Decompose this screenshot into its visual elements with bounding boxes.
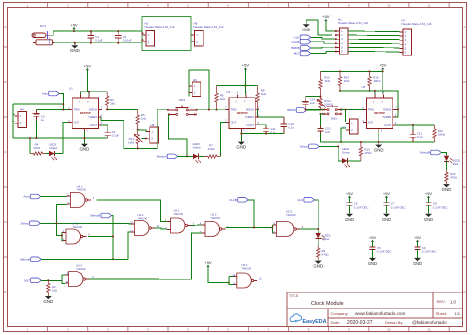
power flag +5V (U1) bbox=[86, 69, 89, 71]
svg-text:+5V: +5V bbox=[383, 191, 391, 196]
LED LED5 Red bbox=[444, 156, 461, 166]
ground GND (R1) bbox=[47, 295, 49, 298]
wire SW2 left bottom bbox=[321, 113, 324, 115]
svg-text:NE555P: NE555P bbox=[374, 111, 385, 115]
resistor R10 bbox=[433, 125, 446, 142]
svg-text:Yellow: Yellow bbox=[49, 146, 58, 150]
wire LED1 to R9 bbox=[317, 239, 319, 246]
svg-text:U4.2: U4.2 bbox=[73, 222, 79, 226]
wire U4.3 out to U5.2 pin5 bbox=[89, 278, 191, 280]
timer U1 NE555P bbox=[68, 93, 103, 133]
wire Select to LED4 bbox=[319, 146, 338, 160]
svg-text:1MΩ: 1MΩ bbox=[128, 140, 135, 144]
svg-text:Auto: Auto bbox=[42, 92, 49, 96]
capacitor C9 0.1UF DEC bbox=[414, 242, 436, 258]
svg-text:Date:: Date: bbox=[331, 320, 341, 325]
wire DC+ to rail bbox=[51, 31, 54, 35]
header H8 bbox=[191, 21, 224, 46]
resistor R9 bbox=[317, 246, 330, 260]
svg-text:GND: GND bbox=[345, 217, 354, 222]
power flag +5V (input) bbox=[73, 28, 76, 30]
svg-text:1kΩ: 1kΩ bbox=[261, 92, 267, 96]
junction R4 top bbox=[29, 137, 31, 139]
junction R14 rail bbox=[339, 70, 341, 72]
gate U5.2 74HC00 bbox=[200, 213, 230, 237]
wire Auto to TRIG bbox=[59, 94, 63, 111]
svg-text:MLT: MLT bbox=[24, 279, 30, 283]
wire C13 to GND rail bbox=[320, 133, 322, 142]
EasyEDA logo bbox=[290, 314, 327, 325]
svg-text:NE555P: NE555P bbox=[237, 111, 248, 115]
wire U3 pin4 to node bbox=[374, 91, 376, 95]
svg-text:www.fabianofurtado.com: www.fabianofurtado.com bbox=[355, 311, 405, 316]
junction THRES bbox=[257, 116, 259, 118]
ground GND (C8) bbox=[425, 214, 432, 217]
svg-text:Blue: Blue bbox=[324, 237, 330, 241]
junction R2 bottom bbox=[106, 108, 108, 110]
wire H4 box left bbox=[12, 104, 14, 138]
junction +5V U2 bbox=[244, 85, 246, 87]
capacitor C8 0.1UF DEC bbox=[425, 198, 447, 214]
wire DISCH stub R8 bbox=[258, 108, 259, 110]
header H6 bbox=[189, 78, 201, 97]
wire SelectB down to Manual row bbox=[112, 216, 114, 260]
resistor R4 bbox=[30, 142, 46, 155]
svg-text:Clock Module: Clock Module bbox=[311, 301, 344, 307]
ground GND (header area) bbox=[305, 20, 307, 24]
wire THRES loop to RV1 bottom and SW1 bbox=[101, 110, 157, 149]
wire Manual flag stub bbox=[178, 155, 187, 157]
svg-text:BRKB: BRKB bbox=[291, 46, 299, 50]
svg-text:COUT: COUT bbox=[384, 123, 392, 127]
svg-text:B: B bbox=[4, 80, 6, 84]
svg-text:+5V: +5V bbox=[379, 63, 387, 68]
wires H1 to H7 bbox=[348, 31, 399, 52]
wire U5.3 input bridge bbox=[272, 225, 276, 233]
svg-text:1/1: 1/1 bbox=[455, 311, 461, 316]
svg-text:+5V: +5V bbox=[322, 14, 330, 19]
junction SW1 right bbox=[196, 109, 198, 111]
svg-text:Header-Male-2.54_1x6: Header-Male-2.54_1x6 bbox=[402, 22, 432, 26]
junction Manual/LED3 bbox=[186, 155, 188, 157]
wire +5V to H1 pin1 bbox=[326, 21, 336, 30]
wire +5V to U3 VCC bbox=[382, 70, 384, 95]
wire MLT to U4.3 bbox=[41, 279, 62, 281]
junction +5V rail U3 bbox=[382, 70, 384, 72]
ground GND (U1) bbox=[83, 143, 85, 145]
gate U5.1 74HC00 bbox=[165, 209, 195, 233]
wire +5V to U2 VCC bbox=[244, 70, 246, 94]
wire CLK drop bbox=[314, 200, 318, 233]
junction U1 gnd rail bbox=[83, 137, 85, 139]
svg-text:THRES: THRES bbox=[245, 115, 254, 119]
wires flags to H1 bbox=[311, 37, 336, 53]
svg-text:74HC00: 74HC00 bbox=[286, 213, 296, 217]
wire SW1 right to TRIG bbox=[197, 109, 226, 111]
header H1 bbox=[336, 18, 369, 55]
svg-text:MLT: MLT bbox=[294, 52, 300, 56]
junction H6 drop bbox=[208, 109, 210, 111]
svg-text:2020-03-27: 2020-03-27 bbox=[347, 320, 373, 326]
capacitor C10 bbox=[281, 117, 295, 134]
svg-text:GND: GND bbox=[424, 217, 433, 222]
wire GND to H1 pin2 bbox=[306, 20, 332, 35]
wire Select to U4.4 pin12 bbox=[40, 222, 131, 225]
svg-text:E: E bbox=[4, 290, 6, 294]
junction R5/RV1 bbox=[137, 129, 139, 131]
wire VCC rail U3 bbox=[321, 70, 383, 72]
junction C2 top bbox=[117, 30, 119, 32]
header H4 bbox=[14, 107, 26, 127]
junction RV11 bottom bbox=[320, 109, 322, 111]
capacitor C7 0.1UF DEC bbox=[383, 198, 405, 214]
wire DISCH to R5 bbox=[106, 108, 138, 110]
junction U3 gnd bbox=[378, 141, 380, 143]
svg-text:COUT: COUT bbox=[247, 123, 255, 127]
capacitor C14 bbox=[301, 97, 315, 110]
wire U4.2 output bbox=[88, 236, 113, 238]
svg-text:U1: U1 bbox=[69, 87, 73, 91]
junction SelectB/Manual bbox=[112, 258, 114, 260]
svg-text:H5: H5 bbox=[151, 123, 155, 127]
junction CLK/LED1 bbox=[317, 228, 319, 230]
wire U4.4 pin13 from Manual row bbox=[128, 232, 131, 259]
svg-text:GND: GND bbox=[302, 28, 310, 32]
wire C13 column bbox=[320, 114, 322, 126]
svg-text:1.0: 1.0 bbox=[450, 299, 456, 304]
svg-text:Yellow: Yellow bbox=[193, 145, 202, 149]
wire U5.2 out to U5.3 bbox=[225, 227, 272, 229]
svg-text:+5V: +5V bbox=[84, 63, 92, 68]
svg-text:GND: GND bbox=[80, 147, 90, 152]
svg-text:1uF: 1uF bbox=[310, 101, 315, 105]
power flag +5V (U5.4) bbox=[207, 265, 210, 267]
svg-text:74HC00: 74HC00 bbox=[242, 266, 252, 270]
gate U4.2 74HC00 bbox=[63, 222, 91, 244]
power flag +5V (C8) bbox=[427, 196, 430, 198]
svg-text:OUT: OUT bbox=[74, 121, 80, 125]
wire U4.4 out to U5.2... U5.1 pin2 bbox=[155, 228, 167, 229]
junction CLKB bbox=[253, 227, 255, 229]
svg-text:GND: GND bbox=[442, 187, 452, 192]
svg-text:U2: U2 bbox=[227, 90, 231, 94]
svg-text:74HC00: 74HC00 bbox=[76, 267, 86, 271]
svg-text:SelectB: SelectB bbox=[90, 214, 100, 218]
junction R16 bottom bbox=[369, 90, 371, 92]
wire H4 box top bbox=[13, 103, 63, 105]
resistor R16 bbox=[368, 71, 382, 91]
wire U5.4 input bridge bbox=[229, 277, 234, 285]
wire H3 pin2 drop bbox=[341, 128, 346, 142]
wire Manual row bbox=[41, 258, 128, 260]
wire top +5V rail bbox=[53, 30, 142, 32]
header H5 bbox=[146, 123, 158, 143]
wire OUT U2 to R7 bbox=[220, 122, 225, 156]
svg-text:0.1u: 0.1u bbox=[288, 125, 294, 129]
wire Auto to U4.1 pin1 bbox=[41, 196, 67, 198]
svg-text:GND: GND bbox=[236, 145, 246, 150]
svg-text:0.1UF DEC: 0.1UF DEC bbox=[377, 250, 392, 254]
wire R8 column to THRES bbox=[257, 109, 259, 117]
svg-text:U3: U3 bbox=[362, 85, 366, 89]
capacitor C13 bbox=[317, 126, 330, 134]
svg-text:BRKB: BRKB bbox=[287, 108, 295, 112]
wire +5V to U1 VCC bbox=[87, 71, 89, 92]
svg-text:GND: GND bbox=[43, 299, 53, 304]
svg-text:0.1UF DEC: 0.1UF DEC bbox=[422, 250, 437, 254]
svg-text:Select: Select bbox=[300, 145, 309, 149]
resistor R14 bbox=[338, 71, 350, 91]
wire U5.3 out to CLK/LED1 bbox=[300, 228, 318, 230]
svg-text:Manual: Manual bbox=[157, 155, 167, 159]
resistor R13 bbox=[359, 142, 372, 161]
wire H4 pins to box bbox=[13, 114, 14, 116]
svg-text:COUT: COUT bbox=[90, 123, 98, 127]
svg-text:SelectB: SelectB bbox=[420, 151, 430, 155]
junction box top bbox=[62, 103, 64, 105]
junction TRIG bbox=[62, 109, 64, 111]
wire C3 to TRIG bbox=[36, 109, 63, 111]
svg-text:0.1UF DEC: 0.1UF DEC bbox=[391, 205, 406, 209]
svg-text:@fabianofurtado: @fabianofurtado bbox=[412, 320, 447, 325]
wire CLKB drop bbox=[248, 200, 254, 228]
svg-text:DC1: DC1 bbox=[40, 24, 46, 28]
wire BRKB to RV11 column bbox=[307, 109, 321, 111]
svg-text:H4: H4 bbox=[20, 107, 24, 111]
svg-text:U5.3: U5.3 bbox=[286, 210, 292, 214]
svg-text:Green: Green bbox=[342, 150, 350, 154]
junction H2 pin2 bbox=[141, 39, 143, 41]
LED LED4 Green bbox=[338, 147, 361, 168]
svg-text:GND: GND bbox=[313, 264, 323, 269]
wire THRES to C10 bbox=[258, 116, 284, 118]
svg-text:+5V: +5V bbox=[242, 63, 250, 68]
svg-text:0.1u: 0.1u bbox=[417, 135, 423, 139]
wire U5.2 pin5 from U4.3 bbox=[191, 233, 201, 279]
timer U3 NE555P bbox=[363, 93, 398, 133]
wire RV1 wiper to H5 pin2 bbox=[142, 138, 147, 140]
wire U4.3 input bridge bbox=[62, 275, 65, 284]
wire SW1 bottom to Manual node bbox=[169, 114, 188, 156]
wire C14 bottom node bbox=[306, 109, 321, 111]
svg-text:74HC00: 74HC00 bbox=[174, 212, 184, 216]
svg-text:470Ω: 470Ω bbox=[208, 147, 216, 151]
title block bbox=[287, 292, 463, 326]
header H7 bbox=[399, 19, 432, 56]
svg-text:Red: Red bbox=[453, 162, 459, 166]
switch SW2 bbox=[322, 105, 342, 121]
resistor R15 bbox=[445, 170, 458, 185]
junction C11 bottom bbox=[265, 133, 267, 135]
svg-text:H3: H3 bbox=[342, 125, 346, 129]
svg-text:A: A bbox=[4, 25, 6, 29]
svg-text:11: 11 bbox=[427, 3, 430, 7]
capacitor C3 bbox=[32, 110, 45, 123]
ground GND (R15) bbox=[446, 183, 448, 185]
header H2 bbox=[142, 21, 175, 46]
svg-text:OUT: OUT bbox=[231, 120, 237, 124]
svg-text:REV:: REV: bbox=[437, 299, 446, 304]
junction C14 bottom bbox=[305, 109, 307, 111]
svg-text:CLK: CLK bbox=[297, 198, 303, 202]
junction C3 bottom bbox=[35, 137, 37, 139]
svg-text:10KΩ: 10KΩ bbox=[373, 79, 381, 83]
junction Select bbox=[56, 222, 58, 224]
svg-text:U4.3: U4.3 bbox=[76, 264, 82, 268]
wire DISCH U3 bbox=[396, 108, 398, 110]
svg-text:U5.4: U5.4 bbox=[242, 263, 248, 267]
junction SW2 right bbox=[345, 109, 347, 111]
wire loop H6 bbox=[189, 70, 209, 110]
svg-text:Select: Select bbox=[21, 222, 30, 226]
svg-text:0.01uF: 0.01uF bbox=[123, 39, 132, 43]
svg-text:+5V: +5V bbox=[70, 22, 78, 27]
svg-text:TRIG: TRIG bbox=[231, 108, 237, 112]
junction Select/LED4 bbox=[337, 145, 339, 147]
wire U4.1 pin2 to Select node bbox=[57, 205, 68, 236]
svg-text:GND: GND bbox=[382, 217, 391, 222]
svg-text:74HC00: 74HC00 bbox=[138, 217, 148, 221]
svg-text:GND: GND bbox=[70, 48, 80, 53]
svg-text:GND: GND bbox=[413, 261, 422, 266]
wire GND rail U1 bottom bbox=[13, 137, 108, 139]
gate U5.4 74HC00 bbox=[232, 263, 262, 288]
junction wiper bbox=[145, 138, 147, 140]
wire H6 pins bbox=[188, 84, 190, 86]
wire VCC rail U1 bbox=[81, 91, 108, 93]
svg-text:0.1uF: 0.1uF bbox=[95, 39, 103, 43]
svg-text:SW1: SW1 bbox=[179, 98, 186, 102]
svg-text:U4.1: U4.1 bbox=[77, 184, 83, 188]
svg-text:CLKB: CLKB bbox=[292, 40, 300, 44]
svg-text:Auto: Auto bbox=[23, 195, 30, 199]
resistor R2 bbox=[106, 92, 117, 110]
svg-text:470Ω: 470Ω bbox=[322, 253, 330, 257]
gate U4.1 74HC00 bbox=[67, 184, 95, 207]
svg-text:OUT: OUT bbox=[368, 121, 374, 125]
svg-text:Company:: Company: bbox=[331, 311, 349, 316]
power flag +5V (C9) bbox=[416, 240, 419, 242]
junction C12 top bbox=[412, 124, 414, 126]
gate U5.3 74HC00 bbox=[272, 210, 304, 237]
potentiometer RV11 bbox=[317, 97, 334, 110]
svg-text:TRIG: TRIG bbox=[74, 108, 80, 112]
power flag +5V (header area) bbox=[325, 20, 328, 22]
junction RV11 top bbox=[320, 96, 322, 98]
svg-text:1kΩ: 1kΩ bbox=[141, 117, 147, 121]
svg-text:TITLE:: TITLE: bbox=[289, 294, 299, 298]
wire VCC rail U2 bbox=[217, 85, 258, 87]
wire GND rail U3 bbox=[321, 141, 435, 143]
gate U4.3 74HC00 bbox=[65, 264, 94, 287]
junction H3 gnd bbox=[340, 141, 342, 143]
svg-text:H6: H6 bbox=[193, 78, 197, 82]
junction R16 rail bbox=[369, 70, 371, 72]
svg-text:CLK: CLK bbox=[294, 36, 300, 40]
wire OUT down to LED2 bbox=[63, 123, 69, 154]
wire GND rail U2 bbox=[241, 133, 284, 135]
wire SelectB to LED5 bbox=[441, 153, 446, 156]
junction U1 pin8 bbox=[88, 91, 90, 93]
ground GND (U2) bbox=[240, 141, 242, 143]
capacitor C11 bbox=[263, 126, 277, 134]
svg-text:11: 11 bbox=[427, 327, 430, 331]
wire SW2 right to TRIG U3 bbox=[341, 109, 363, 111]
wire COUT to C4 bbox=[102, 125, 108, 130]
ground GND (C5) bbox=[369, 258, 376, 261]
svg-text:10: 10 bbox=[387, 3, 391, 7]
junctions H1 pins bbox=[335, 30, 337, 52]
resistor R6 bbox=[215, 86, 226, 110]
svg-text:GND: GND bbox=[368, 261, 377, 266]
wire C14 top to RV11 bbox=[306, 96, 321, 98]
junction H2 pin1 bbox=[141, 32, 143, 34]
wire U1 GND pin bbox=[83, 132, 85, 144]
svg-text:1kΩ: 1kΩ bbox=[52, 288, 58, 292]
resistor R1 bbox=[47, 280, 58, 295]
wire C3 to rail bbox=[35, 121, 37, 139]
resistor R5 bbox=[136, 109, 147, 129]
svg-text:THRES: THRES bbox=[383, 115, 392, 119]
svg-text:Drawn By:: Drawn By: bbox=[385, 320, 403, 325]
svg-text:1kΩ: 1kΩ bbox=[110, 102, 116, 106]
wire U4.2 input bridge bbox=[61, 233, 64, 242]
wire drop to H3 pin1 bbox=[345, 110, 347, 122]
svg-text:U5.2: U5.2 bbox=[211, 213, 217, 217]
wire +5V to U5.4 inputs bbox=[208, 267, 229, 283]
wire LED5 to R15 bbox=[446, 161, 448, 169]
svg-text:U5.1: U5.1 bbox=[174, 209, 180, 213]
power flag +5V (C7) bbox=[385, 196, 388, 198]
junction C1 top bbox=[90, 30, 92, 32]
svg-text:Manual: Manual bbox=[20, 258, 30, 262]
svg-text:1uF: 1uF bbox=[325, 130, 330, 134]
svg-text:B: B bbox=[463, 80, 465, 84]
switch SW1 bbox=[168, 98, 197, 115]
wire SW1 left bbox=[157, 109, 168, 111]
svg-text:GND: GND bbox=[374, 148, 384, 153]
wire U4.1 out long to U5.1 pin1 bbox=[96, 200, 167, 222]
svg-text:CLKB: CLKB bbox=[229, 198, 237, 202]
wire U3 GND pin bbox=[378, 132, 380, 145]
ground GND (input) bbox=[74, 43, 76, 46]
resistor R12 bbox=[319, 71, 331, 96]
resistor R7 bbox=[204, 144, 220, 159]
junction RV1 bottom bbox=[137, 147, 139, 149]
wire C12 node to R10 bbox=[413, 124, 435, 126]
junction U5.4 feed bbox=[228, 282, 230, 284]
svg-text:470Ω: 470Ω bbox=[364, 151, 372, 155]
wire R4 drop bbox=[29, 138, 31, 153]
svg-text:Header-Male-2.54_1x6: Header-Male-2.54_1x6 bbox=[338, 21, 368, 25]
wire TRIG node bbox=[63, 109, 68, 111]
svg-text:+5V: +5V bbox=[204, 260, 212, 265]
svg-text:SW2: SW2 bbox=[331, 117, 338, 121]
junction SW1 left bbox=[167, 109, 169, 111]
svg-text:Sheet:: Sheet: bbox=[436, 311, 448, 316]
svg-text:+5V: +5V bbox=[346, 191, 354, 196]
timer U2 NE555P bbox=[225, 93, 260, 133]
gate U4.4 74HC00 bbox=[130, 213, 160, 235]
wire loop H2/H8 bbox=[142, 17, 191, 51]
svg-text:1KΩ: 1KΩ bbox=[344, 79, 351, 83]
ground GND (C6) bbox=[346, 214, 353, 217]
capacitor C1 bbox=[88, 31, 103, 43]
svg-text:Header-Male-2.54_1x2: Header-Male-2.54_1x2 bbox=[145, 25, 175, 29]
wire RV1 top to H5 pin1 bbox=[138, 130, 147, 132]
junction C1 bottom bbox=[90, 42, 92, 44]
svg-text:10KΩ: 10KΩ bbox=[438, 132, 446, 136]
